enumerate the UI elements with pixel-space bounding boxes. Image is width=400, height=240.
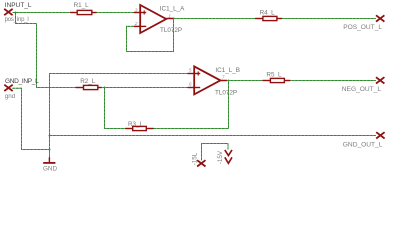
svg-text:-15L: -15L xyxy=(191,152,198,165)
svg-text:R1_L: R1_L xyxy=(74,2,90,9)
svg-text:TL072P: TL072P xyxy=(160,27,182,34)
svg-text:TL072P: TL072P xyxy=(215,89,237,96)
svg-text:GND_OUT_L: GND_OUT_L xyxy=(343,141,383,148)
svg-text:IC1_L_B: IC1_L_B xyxy=(215,67,240,74)
svg-text:3: 3 xyxy=(135,7,138,13)
svg-text:6: 6 xyxy=(189,82,192,88)
svg-text:GND: GND xyxy=(43,166,57,173)
svg-text:NEG_OUT_L: NEG_OUT_L xyxy=(342,86,382,93)
svg-text:POS_OUT_L: POS_OUT_L xyxy=(343,24,382,31)
svg-text:INPUT_L: INPUT_L xyxy=(5,2,32,9)
svg-text:1: 1 xyxy=(168,13,171,19)
svg-text:5: 5 xyxy=(189,68,192,74)
svg-text:GND_INP_L: GND_INP_L xyxy=(5,78,39,85)
svg-text:-15V: -15V xyxy=(217,150,224,164)
svg-text:R2_L: R2_L xyxy=(80,78,96,85)
svg-text:7: 7 xyxy=(222,75,225,81)
svg-text:IC1_L_A: IC1_L_A xyxy=(160,5,185,12)
svg-text:R5_L: R5_L xyxy=(266,72,282,79)
svg-text:R3_L: R3_L xyxy=(128,121,144,128)
svg-text:2: 2 xyxy=(134,21,138,27)
svg-text:pos_inp_l: pos_inp_l xyxy=(5,17,29,23)
svg-text:R4_L: R4_L xyxy=(260,9,276,16)
svg-text:gnd: gnd xyxy=(5,93,16,100)
